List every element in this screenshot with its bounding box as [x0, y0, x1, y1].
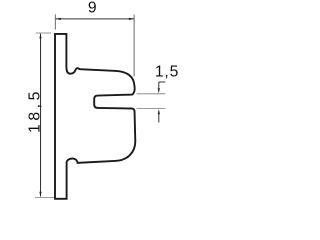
svg-text:1,5: 1,5 — [155, 63, 179, 80]
svg-text:9: 9 — [88, 0, 97, 16]
svg-text:18,5: 18,5 — [27, 88, 44, 133]
